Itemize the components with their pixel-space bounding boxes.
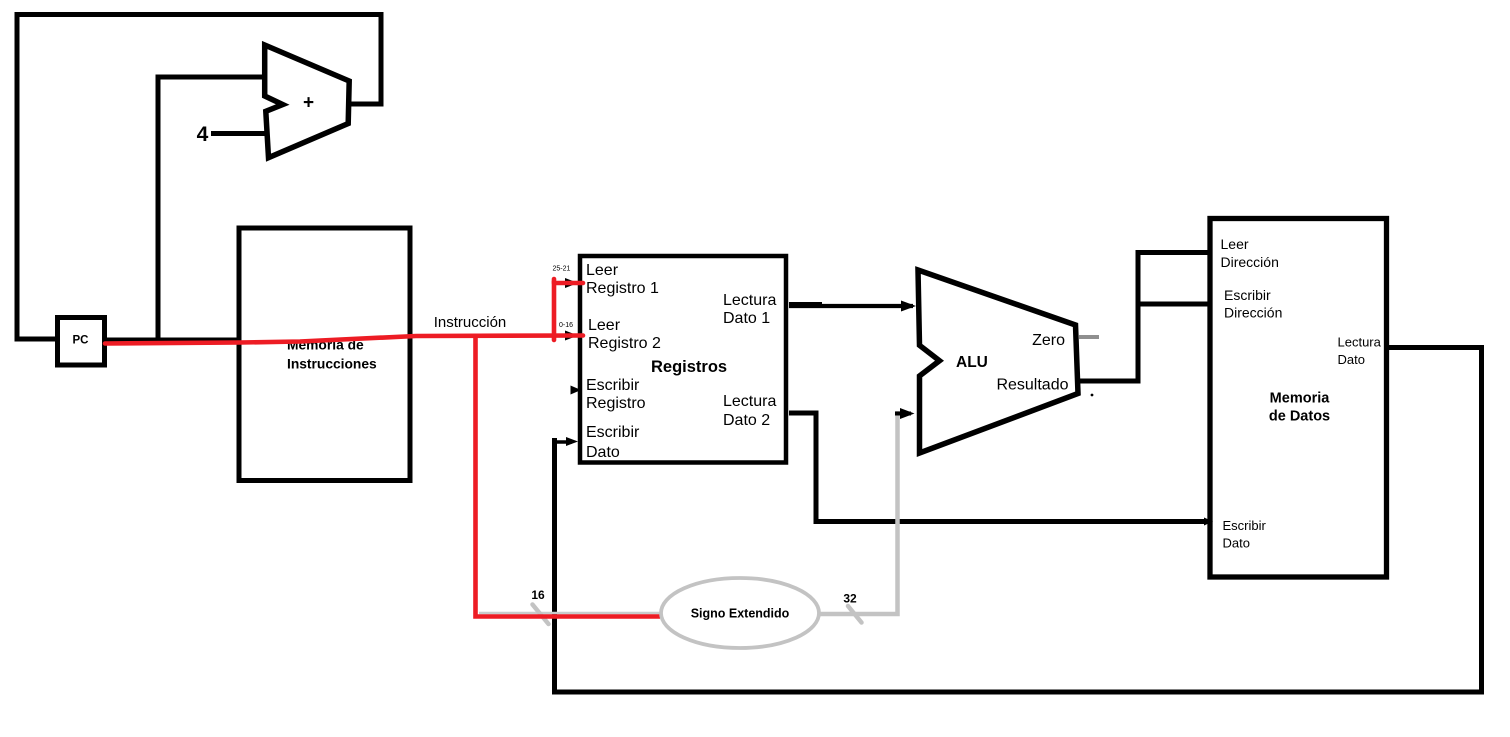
gray line under sign-extend red wire xyxy=(479,612,660,614)
svg-text:Leer: Leer xyxy=(1221,236,1249,252)
svg-text:Escribir: Escribir xyxy=(586,424,640,441)
arrowhead: data memory escribir dato input xyxy=(1204,518,1213,526)
red wire: stub above leer registro 1 corner xyxy=(552,279,557,283)
wire: branch to escribir direccion xyxy=(1136,302,1210,307)
svg-text:de Datos: de Datos xyxy=(1269,409,1330,425)
svg-text:Dato: Dato xyxy=(1223,536,1250,551)
gray wire: sign extend to ALU bottom input xyxy=(818,411,898,614)
red wire: instruction bus PC to registers xyxy=(105,336,583,344)
svg-text:+: + xyxy=(303,93,314,114)
red wire: branch down to sign extend xyxy=(476,335,661,617)
svg-text:Instrucciones: Instrucciones xyxy=(287,357,377,372)
ALU shape xyxy=(918,270,1078,453)
svg-text:Instrucción: Instrucción xyxy=(434,314,507,331)
registers box xyxy=(580,256,786,463)
svg-text:Registro: Registro xyxy=(586,395,646,412)
svg-text:Dato: Dato xyxy=(1338,352,1365,367)
data memory box xyxy=(1210,219,1387,578)
svg-text:PC: PC xyxy=(73,335,89,347)
svg-text:Escribir: Escribir xyxy=(1223,518,1267,533)
svg-text:Leer: Leer xyxy=(586,262,619,279)
wire: 4 to adder bottom input xyxy=(211,131,267,136)
svg-text:Dato 1: Dato 1 xyxy=(723,310,770,327)
svg-text:Dirección: Dirección xyxy=(1221,254,1279,270)
arrowhead: escribir dato input xyxy=(566,437,578,446)
svg-text:0-16: 0-16 xyxy=(559,322,573,329)
svg-text:Escribir: Escribir xyxy=(586,377,640,394)
instruction memory box xyxy=(239,228,410,481)
svg-text:Dato 2: Dato 2 xyxy=(723,412,770,429)
svg-text:4: 4 xyxy=(197,123,209,146)
wire: lectura dato 2 down to data memory escribir dato xyxy=(789,413,1205,522)
svg-text:Dato: Dato xyxy=(586,444,620,461)
arrowhead: leer registro 1 input xyxy=(565,278,578,288)
bus width slash 32 xyxy=(848,606,862,623)
wire: black stub into ALU bottom input xyxy=(895,412,911,416)
wire: adder output to right vertical xyxy=(348,102,384,107)
adder ALU shape xyxy=(265,45,350,158)
svg-text:Dirección: Dirección xyxy=(1224,305,1282,321)
arrowhead: leer registro 2 input xyxy=(565,331,578,341)
wire: escribir dato input stub xyxy=(556,440,572,444)
svg-text:Escribir: Escribir xyxy=(1224,287,1271,303)
PC register box xyxy=(58,318,105,366)
svg-text:Zero: Zero xyxy=(1032,332,1065,349)
svg-text:Lectura: Lectura xyxy=(723,393,776,410)
svg-text:25-21: 25-21 xyxy=(553,266,571,273)
wire: lectura dato around bottom to registers escribir dato xyxy=(555,348,1482,693)
svg-text:Signo Extendido: Signo Extendido xyxy=(691,607,790,621)
svg-text:Resultado: Resultado xyxy=(996,377,1068,394)
svg-text:Lectura: Lectura xyxy=(723,292,776,309)
red wire: branch to leer registro 1 xyxy=(554,283,583,340)
svg-text:32: 32 xyxy=(843,592,857,606)
gray wire: zero output stub xyxy=(1079,335,1099,339)
wire: PC output up to adder top input xyxy=(158,77,266,341)
sign extend ellipse xyxy=(661,578,819,648)
wire: lectura dato 1 to ALU xyxy=(789,304,913,308)
svg-text:Lectura: Lectura xyxy=(1338,335,1382,350)
wire: loop into PC left side xyxy=(15,337,58,342)
wire: lectura dato 1 overdraw near box xyxy=(789,302,822,308)
svg-text:Registro 2: Registro 2 xyxy=(588,335,661,352)
svg-text:Registro 1: Registro 1 xyxy=(586,280,659,297)
wire: PC to instruction memory xyxy=(105,338,241,343)
wire: resultado to data memory leer direccion xyxy=(1078,253,1209,382)
svg-text:Memoria: Memoria xyxy=(1270,391,1331,407)
svg-text:16: 16 xyxy=(531,588,545,602)
svg-text:Registros: Registros xyxy=(651,358,727,376)
svg-text:ALU: ALU xyxy=(956,354,988,371)
artifact dot near resultado xyxy=(1091,394,1094,397)
arrowhead: ALU top input xyxy=(901,301,916,312)
arrowhead: escribir registro input xyxy=(571,386,582,395)
wire: PC feedback loop (left vertical, top horizontal, right vertical) xyxy=(17,15,381,342)
bus width slash 16 xyxy=(533,605,549,625)
svg-text:Leer: Leer xyxy=(588,317,621,334)
arrowhead: ALU bottom input xyxy=(900,408,915,419)
